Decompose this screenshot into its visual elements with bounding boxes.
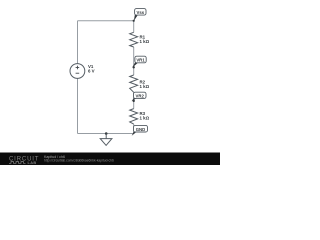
label R1 value — [140, 34, 150, 44]
svg-text:1 kΩ: 1 kΩ — [140, 116, 150, 121]
wire: right vertical segment R2 to R3 — [133, 92, 135, 108]
label V1 value — [88, 64, 95, 73]
node dot top corner — [133, 20, 135, 22]
wire: left vertical branch — [77, 21, 79, 134]
schematic background — [0, 0, 220, 165]
svg-text:6 V: 6 V — [88, 68, 95, 73]
ground symbol — [100, 134, 112, 146]
footer logo waveform — [9, 162, 26, 164]
wire: right vertical segment R1 to R2 — [133, 47, 135, 75]
node flag Vss — [134, 9, 146, 21]
wire: right vertical segment above R1 — [133, 21, 135, 33]
wire: top horizontal — [78, 20, 134, 22]
resistor R2 — [130, 75, 138, 92]
node dot VR1 — [133, 66, 135, 68]
svg-text:http://circuitlab.com/c/8dd6ka: http://circuitlab.com/c/8dd6kae6hbk-kapi… — [44, 159, 114, 163]
junction dot at ground tap — [105, 132, 108, 135]
svg-text:1 kΩ: 1 kΩ — [140, 39, 150, 44]
node flag GND — [132, 125, 148, 135]
node flag VR2 — [132, 92, 146, 101]
footer bar — [0, 153, 220, 166]
svg-text:GND: GND — [136, 127, 146, 132]
label R3 value — [140, 111, 150, 121]
label R2 value — [140, 80, 150, 90]
svg-text:1 kΩ: 1 kΩ — [140, 84, 150, 89]
node flag VR1 — [132, 56, 146, 67]
svg-text:LAB: LAB — [28, 161, 37, 165]
wire: bottom horizontal — [78, 133, 134, 135]
svg-text:VR2: VR2 — [136, 93, 145, 98]
voltage source V1 — [70, 64, 85, 79]
svg-text:Vss: Vss — [136, 10, 144, 15]
resistor R3 — [130, 109, 138, 125]
wire: right vertical segment below R3 — [133, 124, 135, 133]
node dot VR2 — [133, 100, 135, 102]
svg-text:VR1: VR1 — [136, 58, 145, 63]
resistor R1 — [130, 32, 138, 47]
